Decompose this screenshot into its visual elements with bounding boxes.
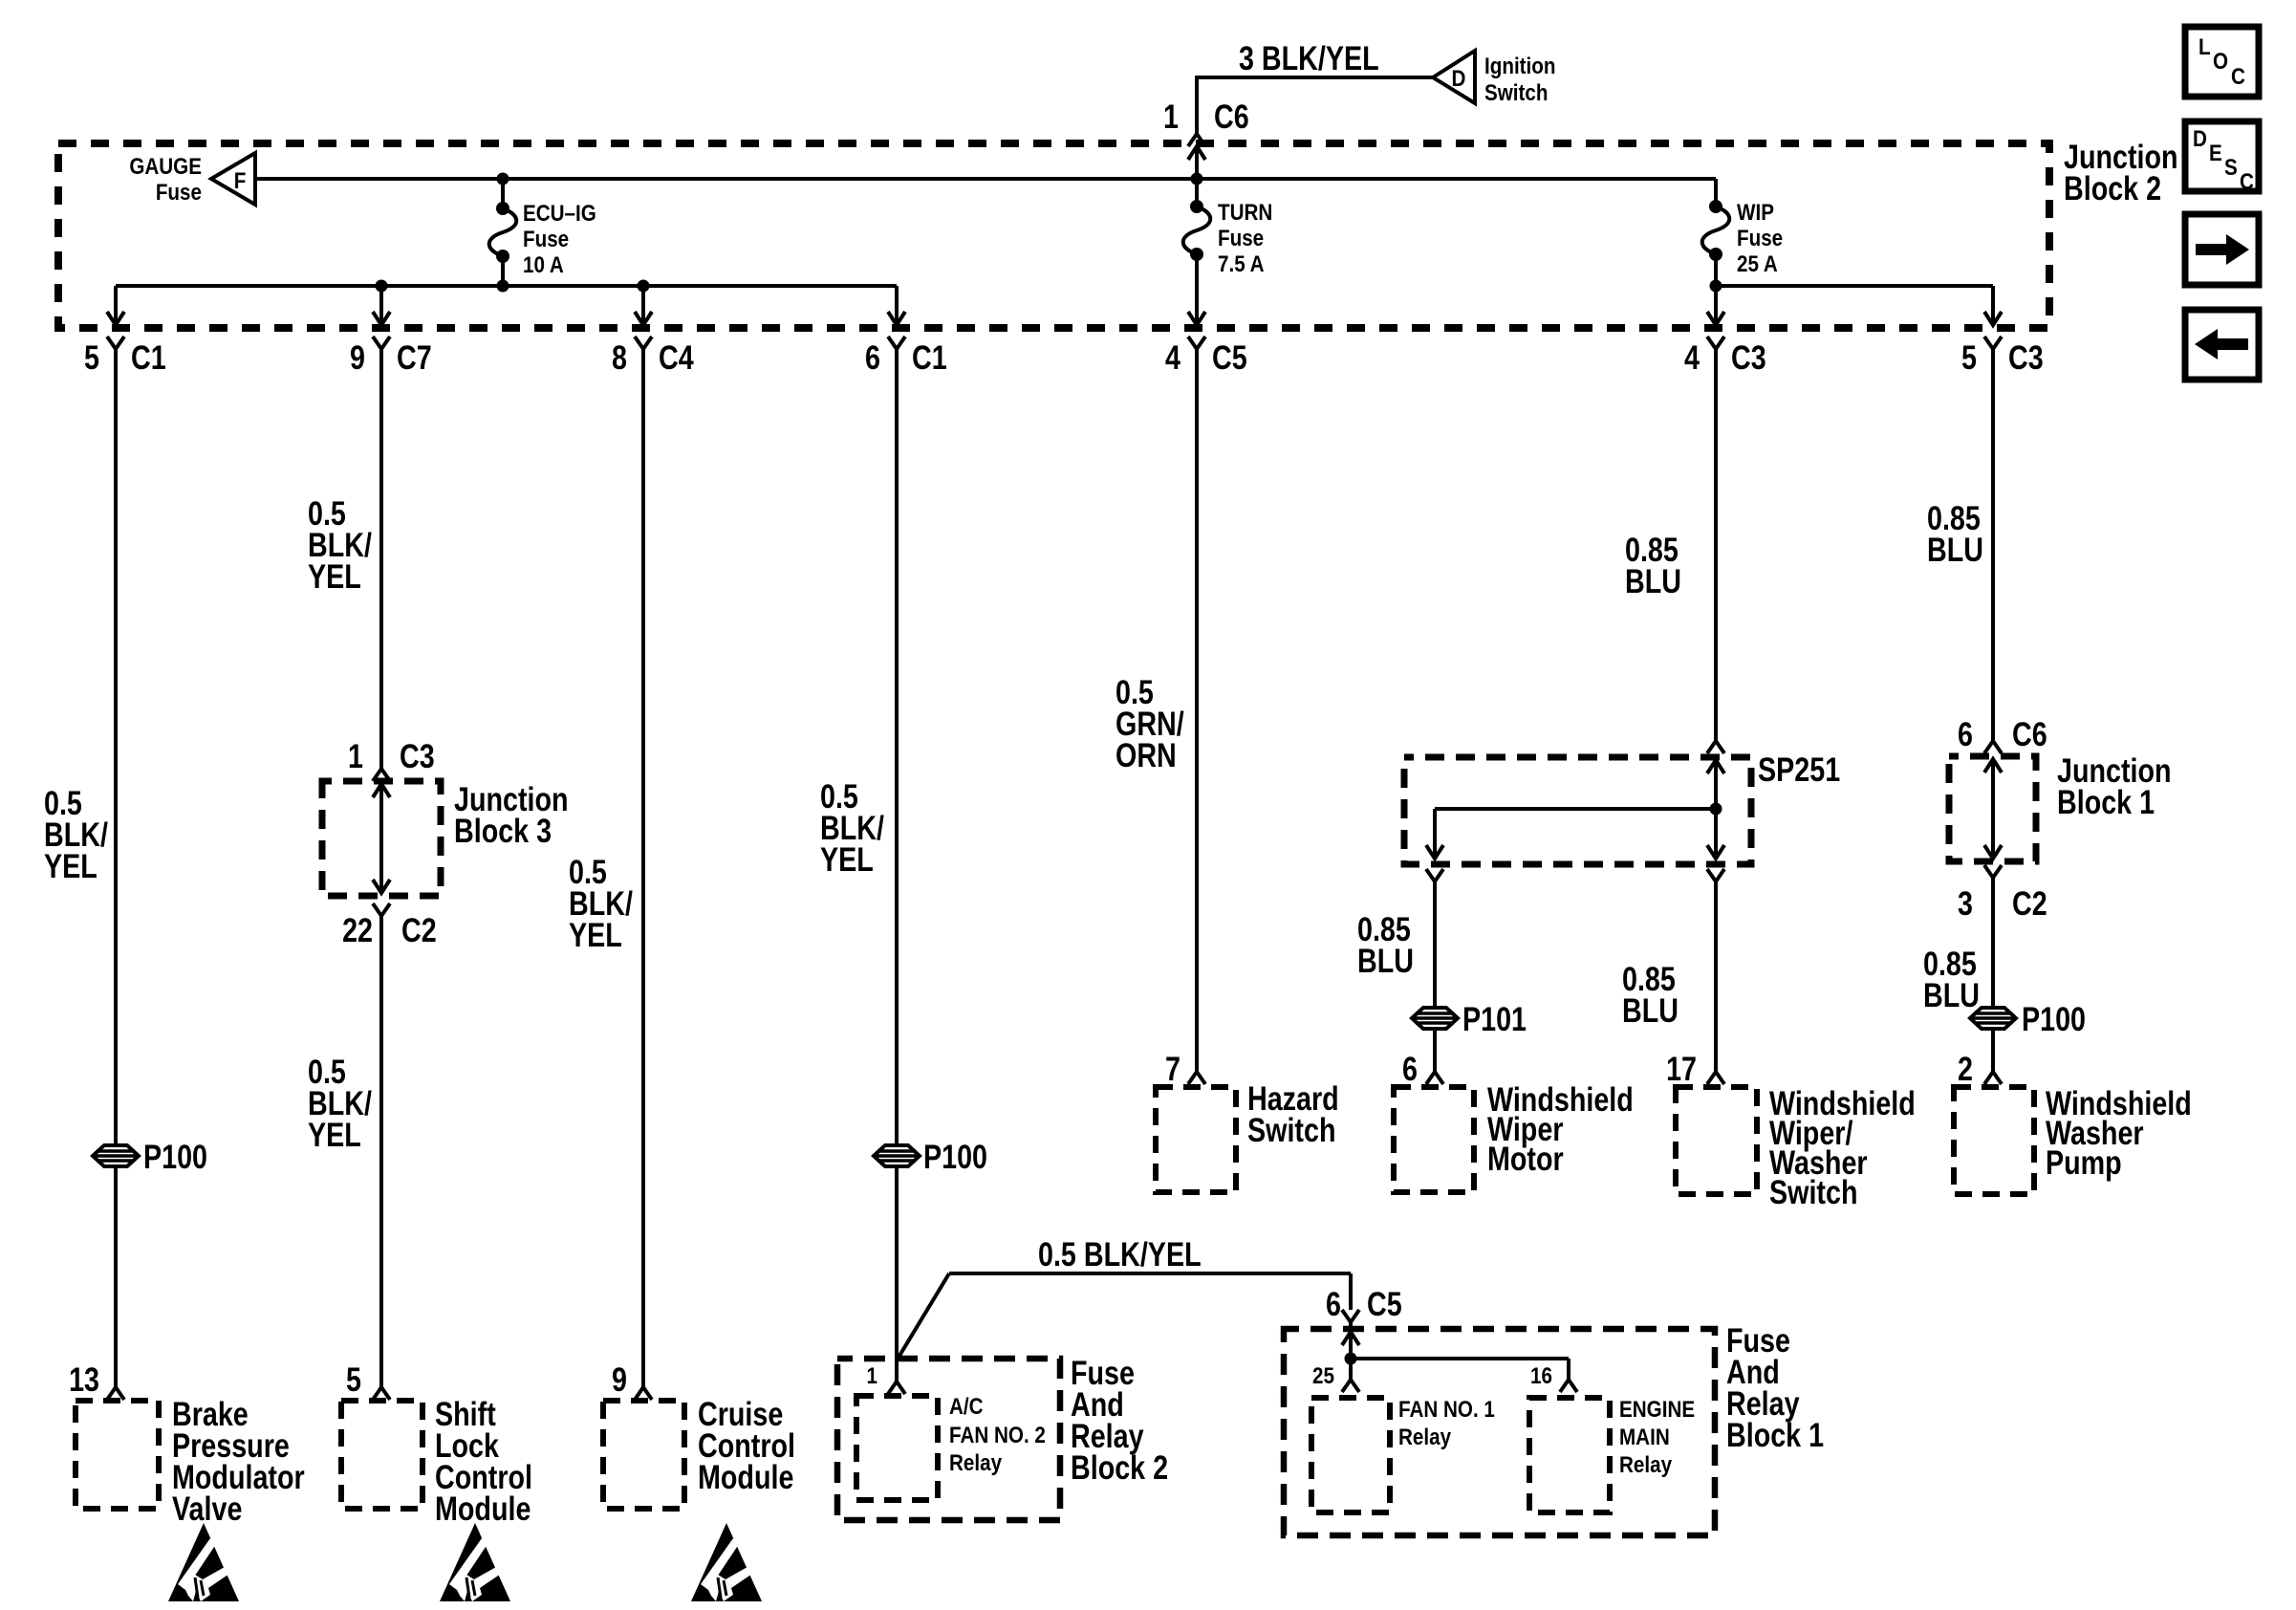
svg-text:Ignition: Ignition: [1484, 54, 1555, 79]
junction dot bus ECU-IG: [497, 280, 509, 293]
svg-text:BLU: BLU: [1927, 531, 1983, 568]
svg-text:BLU: BLU: [1622, 991, 1679, 1029]
arrow into SP251: [1707, 760, 1724, 773]
svg-text:6: 6: [1402, 1050, 1418, 1087]
wire inside junction block 3: [379, 784, 383, 893]
wire C6 pin 1 drop: [1195, 76, 1199, 134]
wire TURN fuse to C5 pin 4: [1195, 254, 1199, 324]
fuse and relay block 1 box: [1284, 1329, 1715, 1535]
svg-text:C6: C6: [2012, 715, 2047, 752]
bus wire from ECU-IG fuse: [116, 284, 897, 288]
connector C3 pin 4: [1707, 337, 1724, 349]
svg-text:9: 9: [612, 1360, 627, 1398]
svg-text:8: 8: [612, 338, 627, 376]
connector hazard switch pin 7: [1188, 1072, 1205, 1084]
svg-text:YEL: YEL: [820, 840, 874, 878]
connector C1 pin 6: [888, 337, 905, 349]
component brake pressure modulator valve box: [76, 1401, 159, 1509]
svg-text:Block 3: Block 3: [454, 812, 552, 849]
connector symbol JB3 C2 pin 22: [373, 903, 390, 916]
junction dot at TURN fuse tap: [1191, 173, 1203, 185]
svg-text:ENGINE: ENGINE: [1619, 1397, 1695, 1423]
connector brake pressure modulator valve pin 13: [107, 1387, 124, 1400]
branch drop inside SP251: [1433, 809, 1437, 859]
connector symbol SP251 right out: [1707, 869, 1724, 881]
branch wire to engine main relay: [1351, 1357, 1569, 1360]
connector engine main relay pin 16: [1560, 1380, 1577, 1392]
svg-text:C: C: [2231, 64, 2245, 90]
arrow out of JB3: [373, 880, 390, 893]
svg-text:5: 5: [84, 338, 99, 376]
junction dot at ECU-IG fuse tap: [497, 173, 509, 185]
connector cruise control module pin 9: [635, 1387, 652, 1400]
arrow out of JB2 at C4 pin 8: [635, 312, 652, 325]
connector shift lock control module pin 5: [373, 1387, 390, 1400]
off-page triangle F GAUGE Fuse: [211, 153, 255, 205]
component windshield wiper motor box: [1394, 1087, 1474, 1192]
connector C5 pin 6: [1342, 1310, 1359, 1322]
wire 0.5 BLK/YEL to cruise control module: [641, 349, 645, 1387]
svg-text:Switch: Switch: [1769, 1173, 1857, 1210]
wire 0.85 BLU to splice SP251: [1714, 349, 1718, 741]
svg-text:Relay: Relay: [1398, 1425, 1452, 1450]
svg-text:Pump: Pump: [2046, 1143, 2122, 1181]
svg-text:6: 6: [865, 338, 880, 376]
svg-text:Motor: Motor: [1487, 1140, 1564, 1177]
branch wire WIP to C3 pin 5: [1716, 284, 1993, 288]
svg-text:C6: C6: [1214, 98, 1249, 135]
svg-text:Block 1: Block 1: [1726, 1416, 1824, 1453]
svg-text:ECU–IG: ECU–IG: [523, 201, 596, 227]
connector C7 pin 9: [373, 337, 390, 349]
connector symbol JB1 C6 pin 6: [1984, 741, 2002, 753]
arrow out of JB2 at C3 pin 5: [1984, 312, 2002, 325]
nav box arrow left: [2185, 310, 2259, 380]
wire inside JB1: [1991, 759, 1995, 859]
svg-text:FAN NO. 2: FAN NO. 2: [949, 1423, 1046, 1448]
ESD sensitive symbol: [168, 1523, 239, 1601]
svg-text:Switch: Switch: [1247, 1111, 1335, 1148]
bus drop C1 pin 5: [114, 286, 118, 324]
arrow out of JB1: [1984, 845, 2002, 859]
svg-text:C: C: [2240, 169, 2254, 195]
svg-text:1: 1: [1163, 98, 1179, 135]
splice P100: [93, 1145, 139, 1166]
arrow into JB1: [1984, 759, 2002, 772]
svg-text:YEL: YEL: [308, 1116, 361, 1153]
wire to ECU-IG fuse: [501, 179, 505, 208]
svg-text:10 A: 10 A: [523, 252, 564, 278]
nav box LOC: [2185, 27, 2259, 97]
svg-text:YEL: YEL: [569, 916, 622, 953]
wire to TURN fuse: [1195, 179, 1199, 207]
svg-text:A/C: A/C: [949, 1394, 984, 1420]
svg-text:5: 5: [346, 1360, 361, 1398]
component hazard switch box: [1156, 1087, 1236, 1192]
wire 0.85 BLU to windshield washer pump: [1991, 878, 1995, 1072]
svg-text:C5: C5: [1212, 338, 1247, 376]
splice P100: [874, 1145, 920, 1166]
svg-text:25 A: 25 A: [1737, 251, 1778, 277]
svg-text:BLU: BLU: [1923, 976, 1980, 1013]
component cruise control module box: [603, 1401, 684, 1509]
branch drop to engine main relay: [1567, 1359, 1570, 1380]
wire 0.5 BLK/YEL to brake pressure modulator valve: [114, 349, 118, 1387]
svg-text:P100: P100: [143, 1138, 207, 1175]
wire 0.85 BLU to windshield wiper/washer switch: [1714, 881, 1718, 1072]
svg-text:3 BLK/YEL: 3 BLK/YEL: [1239, 39, 1379, 76]
svg-text:L: L: [2199, 34, 2211, 60]
wire to WIP fuse: [1714, 179, 1718, 207]
svg-text:BLU: BLU: [1625, 562, 1681, 599]
svg-text:Relay: Relay: [1619, 1452, 1673, 1478]
svg-text:MAIN: MAIN: [1619, 1425, 1670, 1450]
engine main relay box: [1529, 1398, 1610, 1512]
svg-text:P101: P101: [1462, 1000, 1527, 1037]
junction dot SP251: [1710, 803, 1722, 816]
wire 0.5 BLK/YEL to junction block 3: [379, 349, 383, 769]
branch wire inside SP251: [1435, 807, 1716, 811]
fuse and relay block 2 box: [837, 1359, 1060, 1520]
arrow out of JB2 at C5 pin 4: [1188, 312, 1205, 325]
svg-text:6: 6: [1326, 1285, 1341, 1322]
svg-text:13: 13: [69, 1360, 99, 1398]
fuse WIP 25A: [1709, 200, 1722, 213]
svg-text:25: 25: [1312, 1363, 1334, 1389]
connector C5 pin 4: [1188, 337, 1205, 349]
nav box arrow right: [2185, 214, 2259, 285]
ESD sensitive symbol: [440, 1523, 510, 1601]
svg-text:Relay: Relay: [949, 1450, 1003, 1476]
fan no.1 relay box: [1311, 1398, 1390, 1512]
svg-text:Fuse: Fuse: [156, 180, 202, 206]
svg-text:FAN NO. 1: FAN NO. 1: [1398, 1397, 1495, 1423]
svg-text:C4: C4: [659, 338, 694, 376]
svg-text:C1: C1: [912, 338, 947, 376]
svg-text:Block 2: Block 2: [2064, 169, 2161, 207]
svg-text:TURN: TURN: [1218, 200, 1272, 226]
arrow into junction block 2: [1188, 146, 1205, 160]
svg-text:Module: Module: [435, 1490, 531, 1527]
svg-text:C3: C3: [400, 737, 435, 774]
svg-text:P100: P100: [2022, 1000, 2086, 1037]
svg-text:WIP: WIP: [1737, 200, 1774, 226]
connector C4 pin 8: [635, 337, 652, 349]
A/C fan no.2 relay box: [856, 1396, 938, 1500]
bus drop C1 pin 6: [895, 286, 899, 324]
splice P100: [1970, 1008, 2016, 1029]
svg-text:1: 1: [348, 737, 363, 774]
bus drop C4 pin 8: [641, 286, 645, 324]
connector windshield wiper motor pin 6: [1426, 1072, 1443, 1084]
arrow out of JB2 at C7 pin 9: [373, 312, 390, 325]
svg-text:C7: C7: [397, 338, 432, 376]
wire 0.5 BLK/YEL jumper horizontal: [949, 1272, 1351, 1275]
svg-text:Module: Module: [698, 1458, 793, 1495]
svg-text:D: D: [2193, 126, 2207, 152]
svg-text:SP251: SP251: [1758, 751, 1840, 788]
svg-text:16: 16: [1530, 1363, 1552, 1389]
connector A/C fan no.2 relay pin 1: [888, 1382, 905, 1394]
arrow out of JB2 at C1 pin 6: [888, 312, 905, 325]
splice block SP251 box: [1404, 757, 1751, 864]
connector windshield wiper/washer switch pin 17: [1707, 1072, 1724, 1084]
svg-text:O: O: [2213, 49, 2228, 75]
svg-text:C2: C2: [2012, 884, 2047, 922]
wire inside FRB1: [1349, 1332, 1353, 1380]
connector windshield washer pump pin 2: [1984, 1072, 2002, 1084]
svg-text:7.5 A: 7.5 A: [1218, 251, 1265, 277]
svg-text:S: S: [2224, 155, 2238, 181]
wire ECU-IG fuse to bus: [501, 256, 505, 288]
arrow out of SP251 left: [1426, 845, 1443, 859]
wire drop to C5 pin 6: [1349, 1273, 1353, 1310]
junction dot bus C7: [376, 280, 388, 293]
wire inside SP251: [1714, 760, 1718, 859]
arrow into JB3: [373, 784, 390, 797]
svg-text:C2: C2: [401, 911, 437, 948]
svg-text:C3: C3: [2008, 338, 2044, 376]
svg-text:1: 1: [867, 1363, 877, 1389]
wire WIP fuse to C3 pin 4: [1714, 254, 1718, 324]
junction dot bus C4: [638, 280, 650, 293]
arrow into FRB1: [1342, 1332, 1359, 1345]
svg-text:Block 1: Block 1: [2057, 783, 2155, 820]
connector fan no.1 relay pin 25: [1342, 1380, 1359, 1392]
arrow out of JB2 at C3 pin 4: [1707, 312, 1724, 325]
svg-text:Fuse: Fuse: [1737, 226, 1783, 251]
connector C3 pin 5: [1984, 337, 2002, 349]
wire 0.5 BLK/YEL to A/C fan no.2 relay: [895, 349, 899, 1382]
component windshield wiper/washer switch box: [1676, 1087, 1757, 1194]
connector C1 pin 5: [107, 337, 124, 349]
off-page triangle D Ignition Switch: [1433, 51, 1475, 103]
svg-text:Valve: Valve: [172, 1490, 242, 1527]
junction block 1 box: [1949, 756, 2036, 861]
svg-text:C3: C3: [1731, 338, 1766, 376]
svg-text:Switch: Switch: [1484, 80, 1548, 106]
splice P101: [1412, 1008, 1458, 1029]
arrow out of JB2 at C1 pin 5: [107, 312, 124, 325]
svg-text:D: D: [1452, 66, 1466, 92]
svg-text:GAUGE: GAUGE: [129, 154, 202, 180]
fuse TURN 7.5A: [1190, 200, 1203, 213]
svg-text:9: 9: [350, 338, 365, 376]
svg-text:Block 2: Block 2: [1071, 1448, 1168, 1486]
wire into fuse and relay block 1: [1349, 1322, 1353, 1332]
junction dot FRB1: [1345, 1353, 1357, 1365]
svg-text:7: 7: [1165, 1050, 1180, 1087]
svg-text:5: 5: [1961, 338, 1977, 376]
junction block 3 box: [322, 781, 441, 896]
connector symbol C6 pin 1: [1188, 134, 1205, 146]
component windshield washer pump box: [1954, 1087, 2034, 1194]
svg-text:F: F: [234, 168, 247, 194]
wire branch drop C3 pin 5: [1991, 286, 1995, 324]
wire inside JB2 to fuse feed line: [1195, 146, 1199, 179]
svg-text:P100: P100: [923, 1138, 987, 1175]
component shift lock control module box: [341, 1401, 422, 1509]
arrow out of SP251 right: [1707, 845, 1724, 859]
svg-text:YEL: YEL: [308, 557, 361, 595]
junction block 2 box: [58, 143, 2049, 328]
wire 3 BLK/YEL horizontal to ignition switch: [1197, 76, 1433, 79]
svg-text:C5: C5: [1367, 1285, 1402, 1322]
svg-text:Fuse: Fuse: [523, 227, 569, 252]
svg-text:ORN: ORN: [1116, 736, 1177, 773]
branch wire to fuse and relay block 1: [897, 1273, 949, 1360]
svg-text:17: 17: [1666, 1050, 1697, 1087]
svg-text:BLU: BLU: [1357, 942, 1414, 979]
wire 0.85 BLU to junction block 1: [1991, 349, 1995, 741]
fuse ECU-IG 10A: [496, 202, 509, 215]
connector symbol SP251 in: [1707, 741, 1724, 753]
svg-text:Fuse: Fuse: [1218, 226, 1264, 251]
connector symbol SP251 left out: [1426, 869, 1443, 881]
ESD sensitive symbol: [691, 1523, 762, 1601]
svg-text:C1: C1: [131, 338, 166, 376]
bus drop C7 pin 9: [379, 286, 383, 324]
wire 0.5 GRN/ORN to hazard switch: [1195, 349, 1199, 1072]
nav box DESC: [2185, 121, 2259, 191]
svg-text:0.5 BLK/YEL: 0.5 BLK/YEL: [1038, 1235, 1202, 1273]
svg-text:4: 4: [1684, 338, 1700, 376]
wire 0.85 BLU to windshield wiper motor: [1433, 881, 1437, 1072]
svg-text:22: 22: [342, 911, 373, 948]
fuse feed line: [255, 177, 1716, 181]
svg-text:4: 4: [1165, 338, 1180, 376]
junction dot WIP branch: [1710, 280, 1722, 293]
svg-text:3: 3: [1958, 884, 1973, 922]
wire 0.5 BLK/YEL to shift lock control module: [379, 916, 383, 1387]
connector symbol JB3 C3 pin 1: [373, 769, 390, 781]
svg-text:2: 2: [1958, 1050, 1973, 1087]
svg-text:6: 6: [1958, 715, 1973, 752]
svg-text:YEL: YEL: [44, 847, 97, 884]
svg-text:E: E: [2209, 141, 2222, 166]
connector symbol JB1 C2 pin 3: [1984, 865, 2002, 878]
